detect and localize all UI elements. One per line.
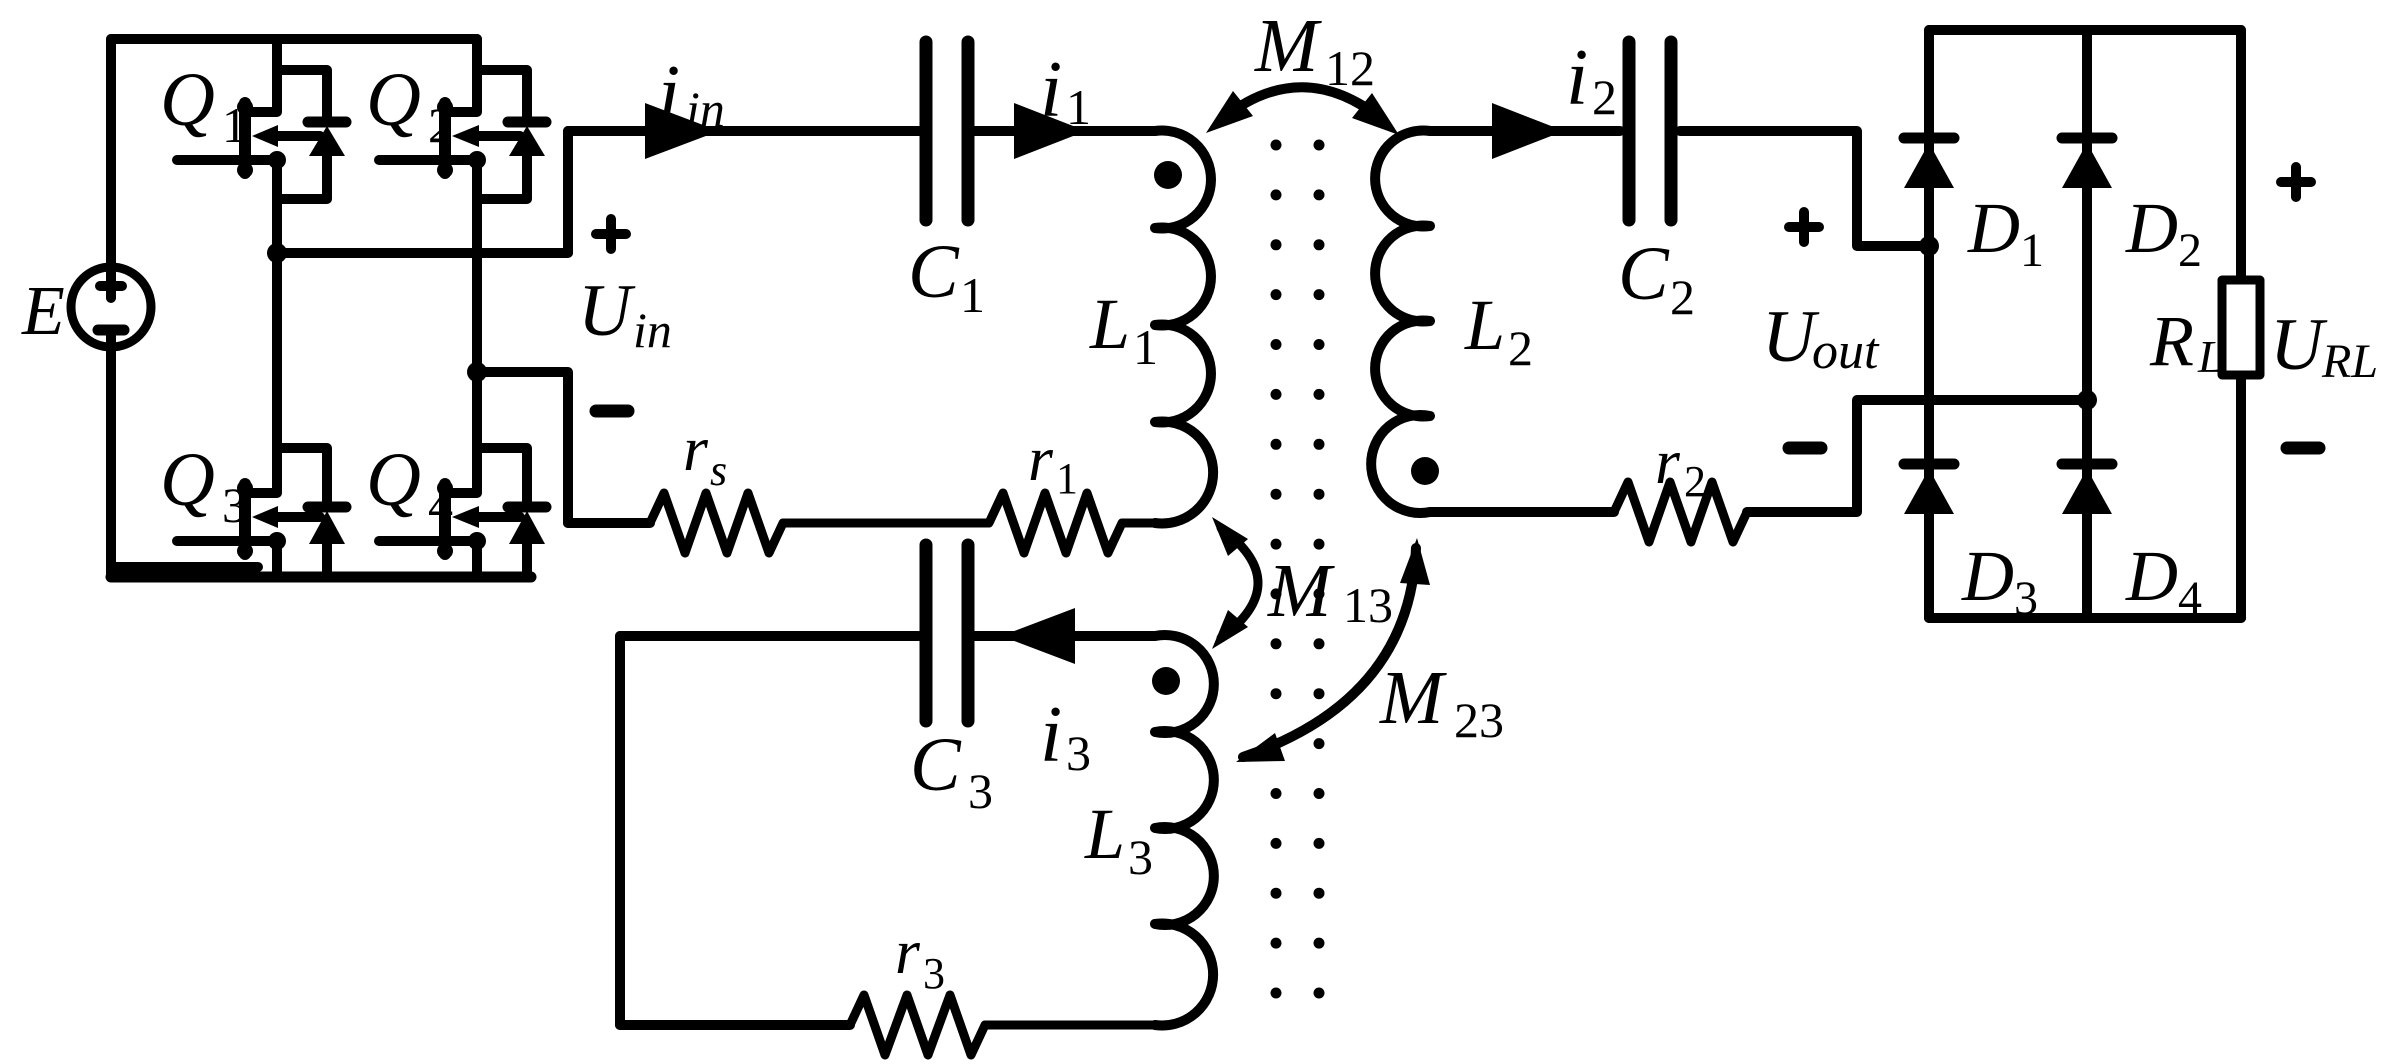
svg-text:2: 2 — [1592, 69, 1617, 125]
svg-text:r: r — [1655, 426, 1681, 497]
svg-text:L: L — [1464, 285, 1505, 365]
svg-text:in: in — [686, 81, 725, 137]
svg-text:RL: RL — [2321, 335, 2378, 388]
svg-text:out: out — [1812, 323, 1880, 380]
svg-text:i: i — [1566, 34, 1588, 122]
svg-text:1: 1 — [1056, 454, 1078, 503]
svg-text:M: M — [1379, 656, 1447, 740]
svg-text:1: 1 — [2020, 224, 2044, 277]
svg-text:Q: Q — [366, 438, 421, 522]
svg-text:i: i — [658, 50, 680, 138]
svg-text:U: U — [2270, 304, 2328, 386]
svg-text:C: C — [1618, 232, 1670, 316]
svg-text:3: 3 — [2014, 572, 2038, 625]
svg-text:12: 12 — [1325, 40, 1375, 96]
svg-text:4: 4 — [2178, 572, 2202, 625]
svg-text:2: 2 — [2178, 224, 2202, 277]
svg-text:3: 3 — [1066, 725, 1091, 781]
svg-text:s: s — [710, 446, 727, 495]
svg-text:Q: Q — [366, 58, 421, 142]
svg-text:D: D — [1967, 188, 2020, 268]
svg-text:3: 3 — [923, 949, 945, 998]
svg-text:2: 2 — [1508, 320, 1533, 376]
svg-text:i: i — [1040, 46, 1062, 134]
svg-text:r: r — [895, 916, 921, 987]
svg-text:U: U — [578, 270, 636, 352]
svg-text:Q: Q — [160, 438, 215, 522]
svg-text:1: 1 — [1066, 79, 1091, 135]
svg-text:1: 1 — [222, 97, 247, 153]
svg-text:D: D — [2125, 536, 2178, 616]
svg-text:R: R — [2149, 301, 2194, 381]
svg-text:2: 2 — [1670, 269, 1695, 325]
svg-text:3: 3 — [222, 477, 247, 533]
svg-text:M: M — [1254, 4, 1322, 88]
svg-text:4: 4 — [428, 477, 453, 533]
svg-text:1: 1 — [960, 267, 985, 323]
svg-text:2: 2 — [428, 97, 453, 153]
svg-text:D: D — [1961, 536, 2014, 616]
svg-text:1: 1 — [1133, 319, 1158, 375]
svg-text:in: in — [633, 302, 672, 358]
svg-text:2: 2 — [1684, 457, 1706, 506]
svg-text:3: 3 — [968, 763, 993, 819]
svg-text:r: r — [1028, 423, 1054, 494]
svg-text:i: i — [1040, 691, 1062, 779]
svg-text:C: C — [908, 230, 960, 314]
svg-text:D: D — [2125, 188, 2178, 268]
svg-text:C: C — [910, 723, 962, 807]
svg-text:M: M — [1267, 549, 1335, 633]
svg-text:23: 23 — [1454, 692, 1504, 748]
svg-text:L: L — [1089, 284, 1130, 364]
svg-text:L: L — [1084, 794, 1125, 874]
svg-text:Q: Q — [160, 58, 215, 142]
svg-text:r: r — [683, 413, 709, 484]
svg-text:13: 13 — [1343, 577, 1393, 633]
svg-text:L: L — [2197, 331, 2224, 382]
svg-text:3: 3 — [1128, 829, 1153, 885]
svg-text:E: E — [21, 273, 65, 350]
